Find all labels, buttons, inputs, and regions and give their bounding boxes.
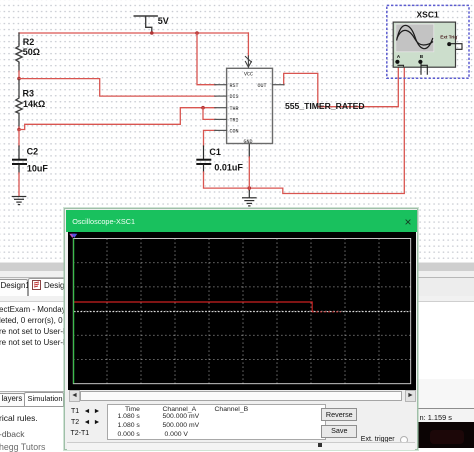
Ext. trigger (361, 436, 395, 443)
wire left rail top corner (18, 33, 20, 44)
wire 5V net horizontal (19, 32, 248, 34)
svg-text:0.01uF: 0.01uF (214, 162, 243, 172)
readout labels T1 T2 (71, 408, 79, 415)
svg-text:14kΩ: 14kΩ (23, 99, 45, 109)
svg-text:RST: RST (230, 83, 239, 89)
plot border (73, 238, 410, 383)
node junction 5V (150, 31, 154, 35)
title bar (66, 210, 417, 232)
dark window bottom right corner (418, 422, 474, 448)
Reverse button (321, 408, 357, 421)
wire VCC pin with arrow (245, 56, 251, 68)
svg-text:XSC1: XSC1 (417, 10, 439, 20)
node junction R2/R3 (17, 77, 21, 81)
pin OUT stub (273, 84, 285, 86)
svg-text:Ext Trig: Ext Trig (440, 35, 457, 40)
svg-text:OUT: OUT (258, 83, 267, 89)
node junction THR/TRI (201, 106, 205, 110)
svg-text:555_TIMER_RATED: 555_TIMER_RATED (285, 101, 365, 111)
svg-text:CON: CON (230, 129, 239, 135)
oscilloscope XSC1 icon selection dashed box (387, 5, 469, 78)
cursor arrow buttons (84, 408, 92, 416)
Save button (321, 425, 357, 438)
design tab bar band (0, 277, 474, 298)
wire R2 bottom to junction (18, 63, 20, 71)
wire C2 to ground (18, 165, 20, 173)
svg-text:10uF: 10uF (27, 163, 49, 173)
readout white box (107, 404, 326, 440)
white trace channel B (74, 310, 411, 312)
label R2 (23, 10, 439, 174)
red trace channel A (74, 302, 312, 312)
svg-text:DIS: DIS (230, 94, 239, 100)
cursor handles (69, 233, 75, 237)
tab Design2 (active) (28, 278, 76, 296)
resistor R2 (16, 44, 22, 63)
node junction R3/C2 (17, 128, 21, 132)
right column behind window (418, 379, 474, 409)
svg-text:5V: 5V (158, 16, 169, 26)
oscilloscope XSC1 icon body (393, 22, 455, 67)
svg-text:A: A (397, 54, 401, 60)
svg-text:C2: C2 (27, 147, 39, 157)
bottom-left tabs (layers / Simulation) (0, 391, 67, 406)
display scrollbar (69, 390, 416, 400)
bottom section divider (67, 442, 415, 450)
op-amp/chip U1 555 timer box (227, 68, 273, 143)
bottom-left status lines (0, 413, 38, 423)
chip pin labels (230, 72, 267, 145)
wire TRI branch (203, 108, 216, 120)
ground (left) (12, 197, 25, 205)
canvas horizontal scrollbar band (0, 262, 474, 272)
wire CON to C1 (204, 130, 216, 146)
svg-text:THR: THR (230, 106, 239, 112)
capacitor C2 (13, 159, 26, 161)
node junction RST branch (195, 31, 199, 35)
node junction gnd net (248, 186, 252, 190)
wire C1 bottom to gnd net (203, 165, 205, 172)
results log text (0, 304, 71, 348)
power 5V supply (134, 16, 157, 31)
chip pin stubs left (215, 85, 284, 131)
resistor R3 (16, 96, 22, 113)
ground (below chip) (243, 198, 256, 206)
terminal B (418, 60, 422, 64)
terminal A (395, 60, 399, 64)
svg-text:TRI: TRI (230, 118, 239, 124)
wire THR net (19, 108, 216, 130)
thin strip under tab bar (0, 296, 474, 302)
svg-text:R2: R2 (23, 37, 35, 47)
grid (73, 238, 410, 383)
wire RST net (197, 33, 216, 85)
svg-text:50Ω: 50Ω (23, 47, 40, 57)
svg-text:C1: C1 (209, 147, 221, 157)
wire R3 bottom (18, 113, 20, 127)
black display (68, 232, 416, 390)
wire junction to C2 (18, 130, 20, 147)
tab Design1 (0, 279, 28, 296)
capacitor C1 (197, 159, 210, 161)
svg-text:GND: GND (244, 139, 253, 145)
wire DIS net (19, 79, 216, 97)
wire OUT net (284, 64, 399, 107)
ext trig terminal (447, 42, 451, 46)
results white pane (0, 301, 474, 392)
svg-text:VCC: VCC (244, 72, 253, 78)
svg-text:B: B (420, 54, 424, 60)
wire junction to R3 (18, 79, 20, 97)
wire chip GND lead (248, 144, 250, 158)
canvas dotted grid background (0, 0, 474, 261)
cursor T1/T2 green line (73, 238, 75, 383)
icon sine waves (397, 25, 433, 48)
svg-text:R3: R3 (23, 88, 35, 98)
wire VCC drop (247, 33, 249, 56)
